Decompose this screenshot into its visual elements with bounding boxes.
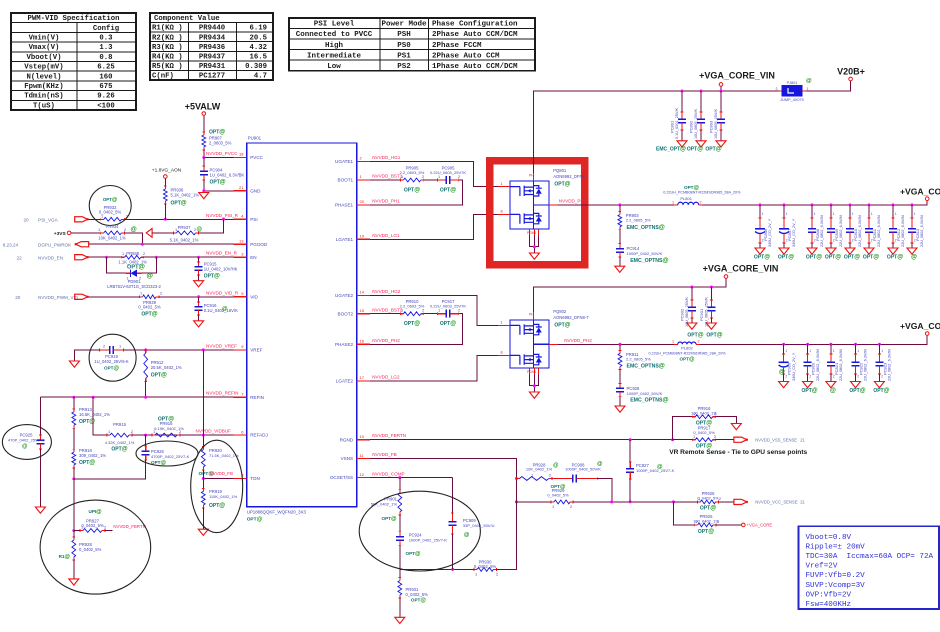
svg-text:NVVDD_HG1: NVVDD_HG1	[372, 155, 401, 160]
wire	[878, 344, 880, 354]
svg-text:PC893: PC893	[709, 120, 714, 133]
svg-text:22: 22	[17, 256, 23, 261]
svg-text:1: 1	[871, 212, 873, 216]
junction	[849, 203, 852, 206]
junction	[105, 256, 108, 259]
source stubs	[528, 229, 530, 236]
jumper PJ801	[779, 90, 782, 92]
svg-text:22U_0802_6.3V/M: 22U_0802_6.3V/M	[839, 349, 843, 381]
capacitor PC909	[451, 512, 454, 514]
wire	[759, 205, 761, 218]
capacitor PC810	[849, 217, 852, 219]
wire	[142, 257, 157, 273]
junction	[202, 434, 205, 437]
ground	[395, 617, 405, 623]
wire	[204, 180, 234, 191]
ellipse bottom-left group	[40, 500, 151, 594]
wire	[533, 236, 535, 254]
resistor PR915	[107, 434, 110, 436]
wire	[73, 468, 75, 479]
junction	[610, 500, 613, 503]
wire	[811, 243, 813, 248]
svg-text:0.22UH_PCMB08NT-R22MSDR985_28A: 0.22UH_PCMB08NT-R22MSDR985_28A_20%	[663, 190, 741, 194]
svg-text:1: 1	[693, 411, 695, 416]
svg-text:<100: <100	[97, 102, 115, 110]
pin 14 UGATE2	[357, 295, 370, 297]
wire	[198, 257, 200, 262]
svg-text:10U_0805_25V/K: 10U_0805_25V/K	[714, 109, 718, 139]
svg-text:10U_0805_25V/K: 10U_0805_25V/K	[704, 297, 708, 327]
svg-text:REFIN: REFIN	[250, 395, 264, 400]
wire	[868, 243, 870, 248]
ground	[69, 579, 79, 585]
wire	[202, 470, 204, 479]
svg-text:20.5K_0402_1%: 20.5K_0402_1%	[151, 365, 182, 370]
wire	[783, 374, 785, 382]
svg-text:1: 1	[914, 212, 916, 216]
wire	[619, 230, 621, 244]
svg-text:5.1K_0402_1%: 5.1K_0402_1%	[170, 238, 199, 243]
svg-text:2: 2	[104, 525, 106, 530]
transistor Q2a high-side FET	[510, 324, 542, 334]
svg-text:PGND: PGND	[527, 370, 537, 374]
info box VR parameters	[798, 526, 939, 609]
junction	[690, 286, 693, 289]
ground	[696, 141, 706, 147]
svg-text:Tdmin(nS): Tdmin(nS)	[24, 93, 63, 101]
capacitor PC807	[783, 217, 786, 219]
junction	[720, 90, 723, 93]
resistor PR916	[692, 416, 695, 418]
ground	[706, 323, 716, 329]
svg-text:OPT@: OPT@	[141, 312, 157, 318]
pin 5 VID	[234, 296, 247, 298]
ground	[716, 141, 726, 147]
svg-text:BOOT1: BOOT1	[338, 178, 354, 183]
capacitor PC891	[681, 111, 684, 113]
svg-text:NVVDD_VCC_SENSE: NVVDD_VCC_SENSE	[755, 500, 798, 505]
transistor Q PQ802 package	[510, 320, 549, 368]
svg-text:OPT@: OPT@	[210, 180, 226, 186]
svg-text:N(level): N(level)	[26, 73, 61, 81]
capacitor PC908	[551, 477, 553, 480]
wire	[71, 232, 101, 234]
svg-text:EMC_OPTNS@: EMC_OPTNS@	[627, 224, 665, 231]
wire	[146, 434, 234, 436]
svg-text:REFADJ: REFADJ	[250, 433, 268, 438]
svg-text:NVVDD_FBRTN: NVVDD_FBRTN	[372, 433, 406, 438]
power node +VGA_CORE_VIN	[719, 83, 723, 87]
svg-text:NVVDD_LG1: NVVDD_LG1	[372, 233, 400, 238]
resistor PR918	[73, 449, 75, 452]
junction	[202, 348, 205, 351]
capacitor PC925	[39, 434, 42, 436]
junction	[911, 203, 914, 206]
capacitor PC905	[436, 179, 438, 182]
svg-text:309_0402_1%: 309_0402_1%	[79, 453, 106, 458]
svg-text:+VGA_CORE: +VGA_CORE	[747, 523, 773, 528]
wire	[89, 243, 234, 245]
capacitor PC893	[720, 111, 723, 113]
wire	[807, 344, 809, 354]
ground	[198, 529, 208, 535]
wire	[700, 130, 702, 141]
capacitor PC914	[618, 243, 621, 245]
svg-text:VREF: VREF	[250, 348, 262, 353]
svg-text:+VGA_CORE: +VGA_CORE	[900, 187, 940, 197]
svg-text:PC901: PC901	[699, 308, 704, 321]
svg-text:Fpwm(KHz): Fpwm(KHz)	[24, 83, 63, 91]
junction	[164, 218, 167, 221]
wire	[164, 178, 166, 186]
wire	[783, 243, 785, 248]
svg-text:TON: TON	[250, 476, 260, 481]
wire	[533, 375, 535, 393]
resistor PR905	[401, 179, 404, 181]
capacitor PC821	[830, 353, 833, 355]
svg-text:0_0402_5%: 0_0402_5%	[406, 592, 429, 597]
wire	[716, 439, 734, 441]
junction	[533, 245, 536, 248]
svg-text:PS0: PS0	[397, 42, 411, 50]
ellipse around PC926	[136, 441, 198, 466]
ellipse around PR932	[89, 186, 131, 226]
wire	[399, 515, 401, 531]
resistor PR920	[202, 447, 204, 450]
wire	[619, 370, 621, 384]
wire	[204, 150, 234, 158]
resistor PR929	[551, 501, 554, 503]
svg-text:OPT@: OPT@	[440, 188, 456, 194]
pin 16 PHASE2	[357, 343, 370, 345]
svg-text:20.5: 20.5	[249, 34, 267, 42]
svg-text:22U_0802_6.3V/M: 22U_0802_6.3V/M	[839, 215, 843, 247]
svg-text:160: 160	[99, 73, 112, 81]
wire	[691, 318, 693, 323]
wire	[673, 501, 697, 503]
svg-text:2: 2	[809, 375, 811, 379]
wire	[144, 256, 234, 258]
resistor PR926	[697, 501, 700, 503]
svg-text:8: 8	[501, 210, 503, 214]
svg-text:16: 16	[360, 339, 365, 344]
resistor PR938	[122, 256, 125, 258]
wire	[807, 374, 809, 382]
wire internal phase node	[534, 204, 549, 206]
resistor PR910	[401, 313, 404, 315]
svg-text:22U_0802_6.3V/M: 22U_0802_6.3V/M	[820, 215, 824, 247]
pin 15 BOOT2	[357, 313, 370, 315]
wire	[73, 397, 75, 409]
junction	[72, 477, 75, 480]
wire	[700, 335, 927, 344]
svg-text:0.22UH_PCMB08NT-R22MSDR985_28A: 0.22UH_PCMB08NT-R22MSDR985_28A_20%	[648, 352, 726, 356]
svg-text:1: 1	[807, 87, 809, 91]
svg-text:+1.8VG_AON: +1.8VG_AON	[152, 168, 182, 174]
svg-text:1: 1	[852, 212, 854, 216]
wire	[558, 343, 674, 345]
junction	[197, 256, 200, 259]
pin 4 PSI	[234, 218, 247, 220]
svg-text:PR9434: PR9434	[199, 34, 226, 42]
svg-text:0_0402_5%: 0_0402_5%	[81, 523, 104, 528]
svg-text:0_0402_5%: 0_0402_5%	[138, 305, 161, 310]
wire	[878, 374, 880, 382]
ground	[194, 281, 204, 287]
svg-text:JUMP_4X079: JUMP_4X079	[780, 98, 803, 102]
svg-text:4.32: 4.32	[249, 44, 267, 52]
table PSI Level	[289, 18, 535, 71]
svg-text:OCSET/SS: OCSET/SS	[330, 475, 353, 480]
wire	[370, 313, 401, 315]
transistor Q PQ801 package	[510, 181, 549, 229]
resistor PR919	[202, 488, 204, 491]
power node +3VS	[67, 231, 71, 235]
junction	[868, 203, 871, 206]
ground	[529, 253, 539, 259]
svg-text:Vref=2V: Vref=2V	[806, 563, 838, 571]
wire	[132, 434, 146, 436]
svg-text:2: 2	[143, 251, 145, 256]
svg-text:OPT@: OPT@	[151, 373, 167, 379]
junction	[92, 396, 95, 399]
junction	[144, 434, 147, 437]
junction	[700, 90, 703, 93]
svg-text:2: 2	[895, 239, 897, 243]
ground	[615, 406, 625, 412]
svg-text:BOOT2: BOOT2	[338, 311, 354, 316]
capacitor PC812	[892, 217, 895, 219]
svg-text:2: 2	[714, 411, 716, 416]
table PWM-VID Specification	[11, 13, 136, 110]
svg-text:PR9440: PR9440	[199, 25, 225, 33]
source stubs 2	[528, 368, 530, 375]
ground	[194, 321, 204, 327]
wire	[400, 545, 474, 569]
pin 3 EN	[234, 256, 247, 258]
svg-text:2: 2	[852, 239, 854, 243]
svg-text:SUVP:Vcomp=3V: SUVP:Vcomp=3V	[806, 582, 866, 590]
svg-text:1U_0402_10V/HK: 1U_0402_10V/HK	[204, 266, 238, 271]
svg-text:PH: PH	[529, 174, 534, 178]
svg-text:1: 1	[401, 308, 403, 313]
svg-text:Component Value: Component Value	[154, 15, 220, 23]
svg-text:Power Mode: Power Mode	[381, 21, 427, 29]
svg-text:PSI: PSI	[250, 217, 257, 222]
ground	[731, 424, 741, 430]
svg-text:1: 1	[672, 339, 674, 343]
capacitor PC820	[806, 353, 809, 355]
svg-text:PR915: PR915	[113, 422, 126, 427]
svg-text:1: 1	[175, 227, 177, 232]
svg-text:2: 2	[179, 429, 181, 434]
svg-text:PR937: PR937	[178, 225, 191, 230]
svg-text:Ripple=± 20mV: Ripple=± 20mV	[806, 543, 866, 551]
svg-text:NVVDD_VID_R: NVVDD_VID_R	[206, 290, 239, 295]
svg-text:2_0603_5%: 2_0603_5%	[209, 141, 232, 146]
wire	[159, 296, 234, 298]
svg-text:2: 2	[857, 375, 859, 379]
pin 10 RGND	[357, 439, 370, 441]
pin 18 PVCC	[234, 157, 247, 159]
junction	[533, 384, 536, 387]
svg-text:22U_0802_6.3V/M: 22U_0802_6.3V/M	[888, 349, 892, 381]
svg-text:PHASE2: PHASE2	[335, 342, 354, 347]
ground	[199, 193, 209, 199]
svg-text:6.19: 6.19	[249, 25, 267, 33]
wire	[370, 179, 401, 181]
svg-text:12: 12	[360, 472, 365, 477]
capacitor PC822	[854, 353, 857, 355]
wire	[203, 478, 233, 480]
svg-text:NVVDD_FB: NVVDD_FB	[210, 471, 233, 476]
wire	[849, 243, 851, 248]
svg-text:@: @	[197, 227, 203, 233]
wire	[370, 214, 498, 239]
resistor PR925	[695, 524, 698, 526]
svg-text:0_0402_5%: 0_0402_5%	[474, 564, 497, 569]
svg-text:0_0402_5%: 0_0402_5%	[547, 492, 569, 497]
svg-text:1: 1	[881, 349, 883, 353]
svg-text:1: 1	[814, 212, 816, 216]
svg-text:Connected to PVCC: Connected to PVCC	[296, 31, 373, 39]
svg-text:PC1277: PC1277	[199, 73, 225, 81]
svg-text:4.32K_0402_1%: 4.32K_0402_1%	[105, 440, 135, 445]
wire	[855, 344, 857, 354]
off-page connector NVVDD_VSS_SENSE	[734, 437, 747, 442]
pin 17 LGATE2	[357, 380, 370, 382]
svg-text:@: @	[553, 463, 559, 469]
svg-text:2: 2	[570, 504, 572, 509]
svg-text:22U_0802_6.3V/M: 22U_0802_6.3V/M	[816, 349, 820, 381]
pin 19 LGATE1	[357, 238, 370, 240]
junction	[806, 343, 809, 346]
svg-text:R5(KΩ ): R5(KΩ )	[152, 63, 183, 71]
svg-text:NVVDD_BST1: NVVDD_BST1	[372, 174, 403, 179]
wire	[719, 501, 734, 503]
capacitor PC915	[197, 261, 200, 263]
wire	[125, 233, 143, 244]
svg-text:1.3: 1.3	[99, 44, 113, 52]
wire	[124, 349, 234, 351]
svg-text:2: 2	[700, 200, 702, 204]
svg-text:UGATE1: UGATE1	[335, 159, 353, 164]
wire	[74, 350, 99, 361]
svg-text:2: 2	[422, 174, 424, 179]
junction	[202, 156, 205, 159]
pin 13 PGOOD	[234, 243, 247, 245]
svg-text:Vboot(V): Vboot(V)	[26, 54, 61, 62]
junction	[629, 438, 632, 441]
wire	[681, 91, 683, 112]
svg-text:0_0402_5%: 0_0402_5%	[693, 430, 715, 435]
svg-text:4700P_0402_25V7-K: 4700P_0402_25V7-K	[151, 454, 190, 459]
svg-text:2: 2	[833, 375, 835, 379]
table Component Value	[150, 13, 273, 80]
svg-text:@: @	[779, 370, 785, 376]
svg-text:2.2_0805_5%: 2.2_0805_5%	[626, 218, 651, 223]
junction	[72, 396, 75, 399]
svg-text:2: 2	[719, 496, 721, 501]
resistor PR903	[619, 212, 621, 215]
svg-text:0.22U_0603_25V7K: 0.22U_0603_25V7K	[430, 170, 466, 175]
junction	[619, 343, 622, 346]
svg-text:Fsw=400KHz: Fsw=400KHz	[806, 601, 852, 609]
svg-text:1: 1	[833, 349, 835, 353]
svg-text:10U_0805_25V/K: 10U_0805_25V/K	[685, 297, 689, 327]
capacitor PC811	[868, 217, 871, 219]
svg-text:PSH: PSH	[397, 31, 411, 39]
junction	[202, 477, 205, 480]
wire	[198, 275, 200, 281]
svg-text:1: 1	[698, 496, 700, 501]
power node +VGA_CORE	[742, 523, 746, 527]
svg-text:1000P_0402_50V/K: 1000P_0402_50V/K	[565, 466, 601, 471]
svg-text:1000P_0402_50V/K: 1000P_0402_50V/K	[627, 391, 663, 396]
svg-text:VID: VID	[250, 294, 258, 299]
wire	[700, 91, 702, 112]
red highlight box	[490, 161, 585, 265]
pin 7 REFIN	[234, 396, 247, 398]
diode PD901	[131, 270, 138, 277]
svg-text:OPT@: OPT@	[687, 147, 703, 153]
svg-text:1: 1	[153, 429, 155, 434]
svg-text:1: 1	[81, 525, 83, 530]
capacitor PC823	[878, 353, 881, 355]
capacitor PC919	[99, 349, 101, 352]
ground	[851, 382, 861, 388]
ellipse around PC925	[2, 425, 51, 460]
wire	[39, 397, 41, 435]
svg-text:@: @	[597, 461, 603, 467]
wire	[370, 180, 463, 205]
svg-text:@: @	[806, 78, 812, 84]
svg-text:13: 13	[239, 238, 244, 243]
svg-text:16.5K_0402_1%: 16.5K_0402_1%	[79, 412, 110, 417]
svg-text:Vstep(mV): Vstep(mV)	[24, 64, 63, 72]
svg-text:2: 2	[833, 239, 835, 243]
svg-text:20: 20	[360, 199, 365, 204]
svg-text:OPT@: OPT@	[209, 503, 225, 509]
svg-text:High: High	[325, 42, 344, 50]
svg-text:1: 1	[438, 308, 440, 313]
wire	[720, 130, 722, 141]
svg-text:2: 2	[762, 239, 764, 243]
wire	[515, 477, 517, 569]
svg-text:1: 1	[401, 174, 403, 179]
wire	[370, 459, 516, 477]
wire	[783, 344, 785, 354]
svg-text:OPT@: OPT@	[706, 333, 722, 339]
svg-text:OPT@: OPT@	[247, 517, 263, 523]
wire internal phase node 2	[534, 343, 549, 345]
svg-text:UGATE2: UGATE2	[335, 293, 353, 298]
wire	[673, 417, 693, 440]
ground	[907, 248, 917, 254]
wire	[203, 158, 205, 167]
svg-text:TDC=30A Iccmax=60A OCP= 72A: TDC=30A Iccmax=60A OCP= 72A	[806, 553, 934, 561]
svg-text:1: 1	[119, 344, 121, 349]
wire	[198, 315, 200, 321]
wire	[145, 435, 147, 446]
svg-text:2: 2	[914, 239, 916, 243]
transistor Q1b low-side FET	[510, 213, 542, 223]
svg-text:2: 2	[785, 375, 787, 379]
ground	[615, 266, 625, 272]
svg-text:PH: PH	[529, 313, 534, 317]
wire	[74, 460, 146, 479]
svg-text:21: 21	[800, 438, 805, 443]
